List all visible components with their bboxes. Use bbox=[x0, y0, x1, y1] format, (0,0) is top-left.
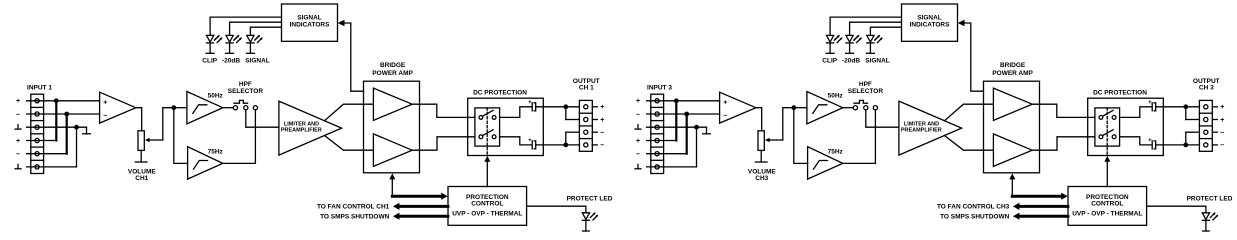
svg-text:TO FAN CONTROL CH3: TO FAN CONTROL CH3 bbox=[937, 204, 1010, 211]
LED SIGNAL indicator bbox=[867, 35, 874, 42]
wire 75Hz output bbox=[843, 162, 876, 164]
svg-text:-20dB: -20dB bbox=[222, 57, 240, 64]
svg-text:+: + bbox=[1220, 117, 1224, 124]
wire to -20dB led bbox=[850, 22, 902, 35]
svg-text:POWER AMP: POWER AMP bbox=[372, 70, 413, 77]
svg-text:–: – bbox=[723, 112, 727, 119]
input terminals bbox=[655, 99, 659, 103]
svg-text:UVP - OVP - THERMAL: UVP - OVP - THERMAL bbox=[1072, 211, 1142, 218]
relay box bbox=[475, 108, 500, 146]
svg-text:75Hz: 75Hz bbox=[828, 148, 844, 155]
wire ground link row3-row6 bbox=[696, 127, 698, 167]
wire 50Hz out to selector bbox=[223, 107, 234, 109]
signal indicators box bbox=[902, 4, 958, 41]
power amp bottom bbox=[993, 134, 1032, 167]
wire top capacitor to output bbox=[536, 106, 579, 108]
pot wiper arrow bbox=[149, 139, 163, 141]
wire link row4 to row1 bbox=[27, 140, 57, 142]
power amp top bbox=[993, 88, 1032, 120]
wire + link bbox=[1185, 107, 1187, 120]
svg-text:+: + bbox=[600, 104, 604, 111]
wire selector to 75Hz out bbox=[874, 110, 876, 164]
arrow TO SMPS SHUTDOWN bbox=[398, 215, 448, 218]
svg-text:+: + bbox=[600, 117, 604, 124]
output connector OUTPUT CH 1 bbox=[579, 100, 592, 151]
HPF filter 50Hz bbox=[807, 92, 843, 124]
svg-text:SELECTOR: SELECTOR bbox=[848, 88, 884, 95]
ground bbox=[140, 150, 142, 162]
node output + junction bbox=[563, 104, 568, 109]
wire buffer output to volume bbox=[136, 108, 142, 131]
relay contact bottom bbox=[1099, 135, 1103, 139]
wire amp mute arrow bbox=[391, 178, 393, 196]
svg-text:–: – bbox=[636, 111, 640, 118]
wire limiter to bottom power amp bbox=[945, 136, 994, 151]
svg-text:+: + bbox=[1220, 104, 1224, 111]
wire tap to signal indicators bbox=[344, 23, 364, 91]
wire input + to buffer bbox=[647, 100, 720, 102]
wire top capacitor to output bbox=[1156, 106, 1199, 108]
wire node to 75Hz filter bbox=[794, 108, 808, 164]
svg-text:+: + bbox=[16, 138, 20, 145]
svg-text:SIGNAL: SIGNAL bbox=[865, 57, 890, 64]
relay actuator dashed line bbox=[1106, 108, 1108, 156]
wire to CLIP led bbox=[210, 17, 281, 35]
volume pot VOLUME CH1 bbox=[138, 131, 144, 151]
wire selector to 75Hz out bbox=[254, 110, 256, 164]
HPF filter 75Hz bbox=[808, 147, 843, 179]
svg-text:TO SMPS SHUTDOWN: TO SMPS SHUTDOWN bbox=[940, 214, 1010, 221]
input connector INPUT 1 bbox=[31, 94, 44, 173]
svg-text:+: + bbox=[528, 138, 532, 144]
ground bbox=[760, 150, 762, 162]
wire node to 50Hz filter bbox=[794, 107, 807, 109]
svg-text:50Hz: 50Hz bbox=[828, 93, 844, 100]
wire bottom amp out to relay bbox=[412, 137, 475, 150]
arrow TO FAN CONTROL CH3 bbox=[1018, 205, 1068, 208]
svg-text:+: + bbox=[636, 138, 640, 145]
svg-text:75Hz: 75Hz bbox=[208, 148, 224, 155]
svg-text:BRIDGE: BRIDGE bbox=[1000, 62, 1026, 69]
svg-text:CH1: CH1 bbox=[135, 175, 148, 182]
power amp bottom bbox=[373, 134, 412, 167]
svg-text:+: + bbox=[636, 98, 640, 105]
svg-text:–: – bbox=[16, 111, 20, 118]
protection control box bbox=[1068, 187, 1147, 226]
limiter and preamplifier bbox=[899, 101, 962, 155]
svg-text:SELECTOR: SELECTOR bbox=[228, 88, 264, 95]
wire protection control to LED bbox=[1147, 206, 1206, 213]
pot wiper arrow bbox=[769, 139, 783, 141]
wire + link bbox=[565, 107, 567, 120]
svg-text:+: + bbox=[723, 99, 727, 106]
volume pot VOLUME CH3 bbox=[758, 131, 764, 151]
svg-text:–: – bbox=[103, 112, 107, 119]
svg-text:PREAMPLIFIER: PREAMPLIFIER bbox=[281, 128, 322, 134]
svg-text:DC PROTECTION: DC PROTECTION bbox=[1093, 89, 1147, 96]
wire link row4 to row1 bbox=[647, 140, 677, 142]
wire limiter to top power amp bbox=[945, 104, 994, 121]
channel 1 signal path bbox=[15, 4, 613, 231]
svg-text:CLIP: CLIP bbox=[822, 57, 837, 64]
LED SIGNAL indicator bbox=[247, 35, 254, 42]
svg-text:+: + bbox=[103, 99, 107, 106]
capacitor bottom DC block bbox=[1151, 141, 1153, 149]
bridge power amp box bbox=[364, 81, 420, 173]
svg-text:POWER AMP: POWER AMP bbox=[992, 70, 1033, 77]
wire link row5 to row2 bbox=[647, 153, 687, 155]
wire relay to top capacitor bbox=[500, 107, 532, 118]
wire tap to signal indicators bbox=[964, 23, 984, 91]
DC protection box bbox=[468, 98, 544, 155]
capacitor top DC block bbox=[531, 103, 533, 111]
wire limiter to bottom power amp bbox=[325, 136, 374, 151]
arrow TO FAN CONTROL CH1 bbox=[398, 205, 448, 208]
limiter and preamplifier bbox=[279, 101, 342, 155]
wire to SIGNAL led bbox=[250, 27, 281, 35]
wire protection control to LED bbox=[527, 206, 586, 213]
svg-text:UVP - OVP - THERMAL: UVP - OVP - THERMAL bbox=[452, 211, 522, 218]
wire selector pole to limiter bbox=[866, 110, 899, 127]
svg-text:SIGNAL: SIGNAL bbox=[297, 15, 322, 22]
svg-text:50Hz: 50Hz bbox=[208, 93, 224, 100]
capacitor top DC block bbox=[1151, 103, 1153, 111]
relay contact top bbox=[1099, 116, 1103, 120]
svg-text:SIGNAL: SIGNAL bbox=[245, 57, 270, 64]
signal indicators box bbox=[282, 4, 338, 41]
LED CLIP indicator bbox=[207, 35, 214, 42]
wire to -20dB led bbox=[230, 22, 282, 35]
wire bottom capacitor to output bbox=[536, 144, 579, 146]
LED -20dB indicator bbox=[846, 35, 853, 42]
wire link row5 to row2 bbox=[27, 153, 67, 155]
wire top amp out to relay bbox=[1032, 104, 1095, 117]
node ground junction bbox=[694, 125, 699, 130]
svg-text:CH3: CH3 bbox=[755, 175, 768, 182]
node row2 junction bbox=[64, 112, 69, 117]
svg-text:CONTROL: CONTROL bbox=[471, 201, 503, 208]
node HPF input bbox=[791, 105, 796, 110]
LED PROTECT bbox=[1202, 213, 1209, 220]
svg-text:DC PROTECTION: DC PROTECTION bbox=[473, 89, 527, 96]
ground bbox=[86, 127, 88, 134]
relay box bbox=[1095, 108, 1120, 146]
wire to SIGNAL led bbox=[870, 27, 901, 35]
svg-text:PROTECT LED: PROTECT LED bbox=[567, 196, 613, 203]
svg-text:CLIP: CLIP bbox=[202, 57, 217, 64]
svg-text:PREAMPLIFIER: PREAMPLIFIER bbox=[901, 128, 942, 134]
channel 3 signal path bbox=[635, 4, 1233, 231]
svg-text:BRIDGE: BRIDGE bbox=[380, 62, 406, 69]
svg-text:-20dB: -20dB bbox=[842, 57, 860, 64]
node ground junction bbox=[74, 125, 79, 130]
relay contact bottom bbox=[479, 135, 483, 139]
svg-text:SIGNAL: SIGNAL bbox=[917, 15, 942, 22]
wire input ground row bbox=[27, 126, 87, 128]
svg-text:PROTECT LED: PROTECT LED bbox=[1187, 196, 1233, 203]
node row2 junction bbox=[684, 112, 689, 117]
wire wiper to HPF node bbox=[163, 108, 174, 140]
op-amp input buffer bbox=[720, 92, 756, 123]
ground bbox=[706, 127, 708, 134]
svg-text:LIMITER AND: LIMITER AND bbox=[284, 121, 319, 127]
svg-text:–: – bbox=[1220, 130, 1224, 137]
input terminals bbox=[35, 99, 39, 103]
node HPF input bbox=[171, 105, 176, 110]
wire relay to bottom capacitor bbox=[500, 137, 532, 145]
node row1 junction bbox=[674, 98, 679, 103]
HPF filter 50Hz bbox=[187, 92, 223, 124]
svg-text:TO SMPS SHUTDOWN: TO SMPS SHUTDOWN bbox=[320, 214, 390, 221]
svg-text:INDICATORS: INDICATORS bbox=[910, 22, 951, 29]
LED CLIP indicator bbox=[827, 35, 834, 42]
wire relay to bottom capacitor bbox=[1120, 137, 1152, 145]
relay actuator dashed line bbox=[486, 108, 488, 156]
wire input ground row bbox=[647, 126, 707, 128]
wire 75Hz output bbox=[223, 162, 256, 164]
wire selector pole to limiter bbox=[246, 110, 279, 127]
node output - junction bbox=[1183, 143, 1188, 148]
svg-text:INPUT 3: INPUT 3 bbox=[647, 85, 672, 92]
wire 50Hz out to selector bbox=[843, 107, 854, 109]
svg-text:+: + bbox=[1148, 100, 1152, 106]
svg-text:+: + bbox=[528, 100, 532, 106]
wire bottom capacitor to output bbox=[1156, 144, 1199, 146]
svg-text:–: – bbox=[16, 151, 20, 158]
node row1 junction bbox=[54, 98, 59, 103]
wire - link bbox=[1185, 132, 1187, 145]
wire input - to buffer bbox=[647, 113, 720, 115]
wire bottom amp out to relay bbox=[1032, 137, 1095, 150]
protection control box bbox=[448, 187, 527, 226]
wire limiter to top power amp bbox=[325, 104, 374, 121]
LED -20dB indicator bbox=[226, 35, 233, 42]
wire input - to buffer bbox=[27, 113, 100, 115]
wire top amp out to relay bbox=[412, 104, 475, 117]
wire buffer output to volume bbox=[756, 108, 762, 131]
wire input + to buffer bbox=[27, 100, 100, 102]
svg-text:CH 3: CH 3 bbox=[1199, 85, 1214, 92]
svg-text:LIMITER AND: LIMITER AND bbox=[904, 121, 939, 127]
wire node to 50Hz filter bbox=[174, 107, 187, 109]
relay contact top bbox=[479, 116, 483, 120]
input connector INPUT 3 bbox=[651, 94, 664, 173]
svg-text:–: – bbox=[1220, 142, 1224, 149]
wire node to 75Hz filter bbox=[174, 108, 188, 164]
bridge power amp box bbox=[984, 81, 1040, 173]
svg-text:+: + bbox=[1148, 138, 1152, 144]
svg-text:–: – bbox=[636, 151, 640, 158]
HPF filter 75Hz bbox=[188, 147, 223, 179]
wire ground link row3-row6 bbox=[76, 127, 78, 167]
wire protection to DC relay arrow bbox=[1106, 161, 1108, 187]
op-amp input buffer bbox=[100, 92, 136, 123]
wire amp mute arrow bbox=[1011, 178, 1013, 196]
svg-text:–: – bbox=[600, 130, 604, 137]
svg-text:+: + bbox=[16, 98, 20, 105]
svg-text:INDICATORS: INDICATORS bbox=[290, 22, 331, 29]
wire - link bbox=[565, 132, 567, 145]
svg-text:CONTROL: CONTROL bbox=[1091, 201, 1123, 208]
node output - junction bbox=[563, 143, 568, 148]
capacitor bottom DC block bbox=[531, 141, 533, 149]
wire protection to DC relay arrow bbox=[486, 161, 488, 187]
DC protection box bbox=[1088, 98, 1164, 155]
arrow TO SMPS SHUTDOWN bbox=[1018, 215, 1068, 218]
wire status to protection control bbox=[1012, 195, 1062, 198]
power amp top bbox=[373, 88, 412, 120]
output connector OUTPUT CH 3 bbox=[1199, 100, 1212, 151]
wire relay to top capacitor bbox=[1120, 107, 1152, 118]
node output + junction bbox=[1183, 104, 1188, 109]
wire status to protection control bbox=[392, 195, 442, 198]
svg-text:–: – bbox=[600, 142, 604, 149]
svg-text:CH 1: CH 1 bbox=[579, 85, 594, 92]
svg-text:INPUT 1: INPUT 1 bbox=[27, 85, 52, 92]
LED PROTECT bbox=[582, 213, 589, 220]
wire to CLIP led bbox=[830, 17, 901, 35]
svg-text:TO FAN CONTROL CH1: TO FAN CONTROL CH1 bbox=[317, 204, 390, 211]
wire wiper to HPF node bbox=[783, 108, 794, 140]
